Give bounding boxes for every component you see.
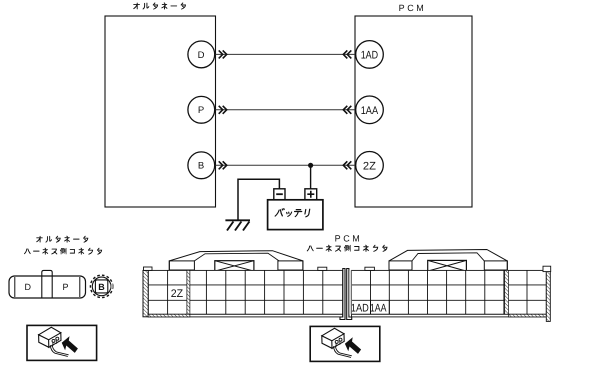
- svg-text:D: D: [198, 50, 205, 61]
- svg-text:P: P: [198, 105, 204, 116]
- PCM connector left half hood: [169, 251, 303, 270]
- label: PCM harness connector subtitle (katakana): [307, 245, 387, 251]
- connector wires: [334, 346, 340, 355]
- label: alternator title (katakana): [134, 3, 186, 9]
- terminal 1AA: [356, 96, 384, 124]
- PCM connector right half body grid: [352, 270, 547, 314]
- connector 3d body: [322, 328, 344, 348]
- svg-text:B: B: [198, 161, 204, 172]
- connector wires: [50, 345, 56, 354]
- terminal B: [188, 152, 215, 179]
- svg-text:1AD: 1AD: [351, 303, 369, 315]
- top tab left half: [318, 267, 327, 270]
- left end piece: [143, 267, 152, 317]
- svg-text:B: B: [98, 282, 105, 292]
- connector B ring: [90, 275, 112, 297]
- PCM box: [355, 16, 472, 207]
- svg-text:1AA: 1AA: [361, 105, 379, 117]
- view icon box right: [310, 326, 380, 361]
- wire B to 2Z: [216, 164, 356, 166]
- terminal 2Z: [356, 152, 384, 180]
- terminal P: [188, 96, 215, 123]
- top tab right half: [365, 267, 375, 270]
- terminal D: [188, 41, 215, 68]
- svg-text:1AA: 1AA: [370, 303, 387, 315]
- label: battery (katakana): [275, 209, 310, 217]
- ground: [225, 219, 250, 221]
- label: alternator harness-side connector title line1: [37, 236, 88, 242]
- svg-text:2Z: 2Z: [171, 288, 184, 300]
- view icon box left: [27, 325, 97, 360]
- battery body: [268, 200, 323, 230]
- battery BT terminal plus: [305, 189, 317, 200]
- wire D to 1AD: [216, 53, 356, 55]
- view direction arrow: [62, 336, 78, 353]
- right end piece left half: [340, 269, 345, 320]
- left end piece right half: [347, 269, 352, 320]
- X keying box right hood: [428, 260, 467, 271]
- pin divider lines: [371, 300, 390, 314]
- keying slot hatch left: [187, 270, 190, 314]
- bottom rail right half: [352, 314, 547, 317]
- svg-text:D: D: [25, 282, 32, 292]
- terminal 1AD: [356, 41, 384, 69]
- node junction on B wire: [308, 163, 313, 168]
- svg-text:PCM: PCM: [399, 3, 427, 13]
- svg-text:P: P: [62, 282, 68, 292]
- alternator box: [105, 16, 216, 207]
- bottom rail left half: [148, 314, 343, 317]
- battery terminal minus: [274, 189, 285, 200]
- view direction arrow: [345, 337, 361, 354]
- svg-text:PCM: PCM: [335, 234, 363, 244]
- label: alternator harness-side connector title line2: [24, 248, 101, 254]
- wire battery minus to ground: [238, 179, 279, 219]
- right end piece right half: [543, 266, 551, 321]
- connector 3d body: [39, 327, 61, 347]
- wire junction to battery plus: [310, 165, 312, 189]
- keying slot hatch right: [505, 270, 509, 314]
- PCM connector left half body grid: [148, 270, 343, 314]
- svg-text:1AD: 1AD: [361, 49, 378, 61]
- connector D-P body: [9, 276, 86, 298]
- wire P to 1AA: [216, 109, 356, 111]
- connector D-P key tab: [42, 270, 52, 297]
- PCM connector right half hood: [389, 250, 507, 271]
- X keying box left hood: [215, 261, 254, 271]
- svg-text:2Z: 2Z: [363, 160, 376, 172]
